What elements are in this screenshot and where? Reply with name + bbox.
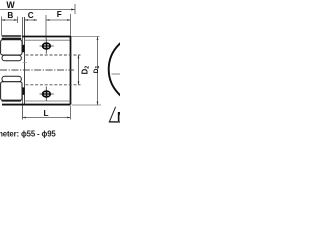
svg-text:D2: D2 [81,66,91,75]
main centerline [0,69,74,71]
svg-text:B: B [7,11,13,20]
svg-text:C: C [28,11,34,20]
svg-text:meter: ϕ55 - ϕ95: meter: ϕ55 - ϕ95 [0,130,56,139]
dimension W right arrow [71,9,75,11]
dimension F label [57,10,62,19]
body top inner line [25,39,71,41]
dimension F line [46,19,71,21]
extension line bottom right [72,104,101,106]
bolt 1 crosshair [40,39,54,54]
bolt 1 body [42,42,51,49]
svg-text:F: F [57,10,62,19]
dimension D2 arrows [78,55,80,58]
dimension D1 arrows [97,37,99,41]
clamp shell top lip upper [2,35,22,37]
joint pin upper [22,45,24,52]
svg-text:D1: D1 [93,66,101,74]
lower slim gasket bar [2,76,21,82]
surface mark letter [117,110,127,124]
dimension L label [43,109,48,118]
clamp shell top lip lower [2,38,22,40]
end-view centerline tick [112,73,121,75]
body left edge [24,17,26,105]
dimension C line [25,19,37,21]
dimension L arrows [23,117,26,119]
dimension D2 label (rotated) [81,66,91,75]
end-view circle arc [109,34,179,104]
faint hidden step line [23,62,28,64]
extension line L right [70,106,72,120]
dimension D1 label (rotated) [93,66,101,74]
hidden dashed line lower [26,84,81,86]
bolt 2 crosshair [40,87,54,102]
body bottom face / bottom lip [2,104,71,106]
svg-text:W: W [6,0,15,10]
body bottom inner line [25,100,71,102]
dimension D2 line [78,55,80,85]
dimension F arrows [46,19,49,21]
dimension B arrows [2,19,5,21]
upper slim gasket bar [2,55,21,61]
extension line F left / bolt centerline upper [45,15,47,39]
surface mark triangle [109,107,115,122]
svg-text:M: M [117,110,120,124]
body top face [22,36,70,38]
svg-text:L: L [43,109,48,118]
hidden dashed line upper [26,54,81,56]
dimension C arrows [25,19,28,21]
shell upper box [1,40,22,55]
lap joint line outer [22,17,24,120]
dimension B line [2,19,18,21]
extension lines B [2,17,18,36]
dimension B label [7,11,13,20]
body right face [70,36,72,105]
dimension W label [6,0,15,10]
caption text [0,130,56,139]
dimension W line [0,9,75,11]
joint pin lower [22,87,24,94]
extension line F right [70,14,72,36]
extension line top right [72,36,100,38]
clamp shell bottom lip upper [2,100,22,102]
dimension D1 line [97,37,99,106]
shell lower box [1,82,22,101]
dimension L line [23,117,71,119]
dimension C label [28,11,34,20]
bolt 2 body [42,90,51,97]
extension line W [74,4,76,14]
